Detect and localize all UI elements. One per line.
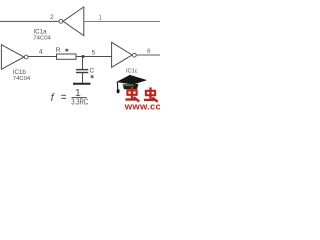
wire net2 left [0,20,59,22]
svg-text:www.cc: www.cc [124,102,160,110]
wire capacitor to ground [82,73,84,83]
ground [73,83,91,85]
svg-text:✱: ✱ [65,48,69,54]
svg-text:74C04: 74C04 [33,35,51,41]
svg-text:5: 5 [91,50,95,57]
op-amp U2 IC1b inverter (points right) [1,45,28,70]
wire junction to capacitor [82,57,84,70]
watermark char chong2 [144,87,158,101]
svg-text:2: 2 [50,14,54,21]
wire net1 right [84,21,160,23]
watermark graduation cap [116,75,147,93]
svg-text:74C04: 74C04 [13,76,31,82]
svg-text:3.3RC: 3.3RC [71,98,88,107]
formula f = 1/3.3RC [51,88,89,107]
resistor R [57,54,77,59]
watermark char chong1 [125,87,139,101]
svg-text:C: C [90,67,95,74]
op-amp U1 IC1a inverter (points left) [59,7,84,36]
op-amp U3 IC1c inverter (points right) [112,42,137,67]
svg-text:IC1b: IC1b [13,69,27,76]
svg-text:IC1c: IC1c [126,69,138,75]
wire net6 [136,54,160,56]
capacitor C [76,70,88,73]
svg-text:4: 4 [39,48,43,55]
junction node [82,55,85,58]
svg-text:R: R [56,47,61,54]
wire net5 [76,56,112,58]
svg-text:6: 6 [147,48,151,55]
wire net4 [28,56,56,58]
svg-text:✱: ✱ [90,74,94,80]
svg-text:1: 1 [98,14,102,21]
